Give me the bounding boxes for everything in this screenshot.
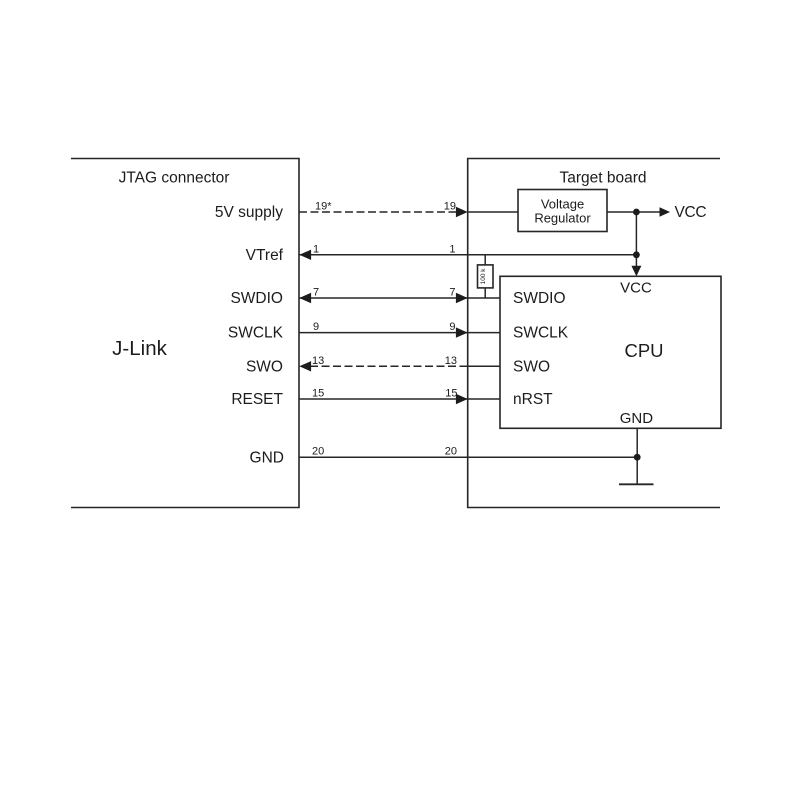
svg-text:J-Link: J-Link <box>112 337 167 360</box>
svg-text:VCC: VCC <box>675 204 707 221</box>
svg-text:SWDIO: SWDIO <box>513 290 566 307</box>
wire VTref pin1 <box>299 254 636 256</box>
wire voltage regulator output to VCC arrow <box>607 211 660 213</box>
svg-text:7: 7 <box>449 287 455 299</box>
wire 5V supply pin19 dashed (J-Link to target edge) <box>299 211 458 213</box>
svg-text:GND: GND <box>250 449 284 466</box>
svg-text:CPU: CPU <box>624 340 663 361</box>
wire resistor top stub <box>484 255 486 265</box>
wire pin19 target edge to voltage regulator <box>468 211 518 213</box>
svg-text:SWO: SWO <box>513 358 550 375</box>
svg-text:19: 19 <box>444 201 456 213</box>
svg-text:9: 9 <box>313 321 319 333</box>
CPU U1 box <box>500 276 721 428</box>
svg-text:7: 7 <box>313 287 319 299</box>
arrowhead SWCLK into target <box>456 327 468 337</box>
wire SWCLK pin9 <box>299 332 500 334</box>
svg-text:5V supply: 5V supply <box>215 204 283 221</box>
svg-text:SWDIO: SWDIO <box>230 290 283 307</box>
arrowhead SWDIO into target <box>456 293 468 303</box>
svg-text:20: 20 <box>312 446 324 458</box>
wire CPU GND vertical <box>636 428 638 484</box>
wire VCC vertical drop to CPU <box>635 212 637 267</box>
arrowhead VTref into J-Link <box>299 250 311 260</box>
junction dot VTref/VCC <box>633 251 640 258</box>
voltage regulator U2 box <box>518 190 607 232</box>
svg-text:19*: 19* <box>315 201 332 213</box>
svg-text:nRST: nRST <box>513 391 553 408</box>
wire resistor bottom stub <box>484 288 486 298</box>
junction dot VCC top <box>633 209 640 216</box>
JTAG connector box (open left) <box>71 159 299 508</box>
svg-text:20: 20 <box>445 446 457 458</box>
svg-text:Voltage: Voltage <box>541 197 584 212</box>
svg-text:1: 1 <box>449 243 455 255</box>
svg-text:SWO: SWO <box>246 358 283 375</box>
arrowhead RESET into target <box>456 394 468 404</box>
arrowhead pin19 into target <box>456 207 468 217</box>
svg-text:13: 13 <box>312 355 324 367</box>
wire GND pin20 <box>299 456 637 458</box>
svg-text:JTAG connector: JTAG connector <box>119 169 230 186</box>
arrowhead SWO into J-Link <box>299 361 311 371</box>
svg-text:15: 15 <box>312 388 324 400</box>
svg-text:Regulator: Regulator <box>534 211 591 226</box>
svg-text:VCC: VCC <box>620 280 652 297</box>
wire SWO pin13 dashed <box>310 365 468 367</box>
svg-text:9: 9 <box>449 321 455 333</box>
junction dot GND <box>634 454 641 461</box>
arrowhead VCC down into CPU <box>631 266 641 277</box>
svg-text:SWCLK: SWCLK <box>228 325 284 342</box>
svg-text:1: 1 <box>313 243 319 255</box>
svg-text:SWCLK: SWCLK <box>513 325 569 342</box>
svg-text:VTref: VTref <box>246 247 284 264</box>
wire SWDIO pin7 <box>299 297 500 299</box>
svg-text:13: 13 <box>445 355 457 367</box>
wire SWO target edge to CPU <box>468 365 500 367</box>
arrowhead SWDIO into J-Link <box>299 293 311 303</box>
svg-text:100 k: 100 k <box>480 268 487 285</box>
ground symbol <box>619 483 654 485</box>
svg-text:RESET: RESET <box>231 391 283 408</box>
arrowhead VCC right <box>660 207 671 217</box>
svg-text:Target board: Target board <box>559 169 646 186</box>
wire RESET pin15 <box>299 398 500 400</box>
svg-text:15: 15 <box>445 388 457 400</box>
resistor R1 100k box <box>478 265 494 288</box>
Target board box (open right) <box>468 159 720 508</box>
svg-text:GND: GND <box>620 410 654 427</box>
